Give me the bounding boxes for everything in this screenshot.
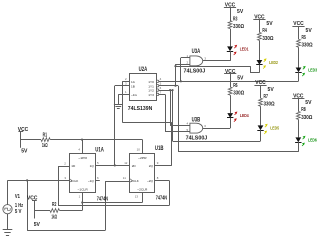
junction clear net — [81, 201, 83, 203]
wire: resistor R6 to LED4 anode — [230, 95, 232, 113]
wire: LED1 cathode down — [230, 51, 232, 61]
LED LED1 — [227, 45, 249, 55]
clock source V1 (1 Hz, 5 V) — [3, 194, 24, 215]
svg-text:~2CLR: ~2CLR — [137, 188, 148, 192]
decoder U2A 74LS139N — [130, 74, 157, 101]
output bubbles U2A — [156, 80, 158, 96]
power VCC symbol (R2 pull-up, 5V) — [27, 196, 40, 229]
svg-text:5V: 5V — [21, 148, 28, 154]
svg-text:330Ω: 330Ω — [233, 91, 244, 97]
svg-text:~1G: ~1G — [131, 93, 138, 97]
svg-text:U3A: U3A — [192, 48, 201, 55]
svg-text:74LS139N: 74LS139N — [128, 106, 153, 112]
svg-text:~1Q: ~1Q — [88, 179, 95, 183]
svg-text:1Y0: 1Y0 — [148, 80, 154, 84]
svg-text:11: 11 — [123, 176, 126, 180]
svg-text:~1PR: ~1PR — [78, 156, 87, 160]
junction 1Y0 — [180, 80, 182, 82]
wire: resistor R7 to LED5 anode — [260, 106, 262, 125]
wire: V1 top to U1A clock input — [8, 180, 70, 204]
svg-text:330Ω: 330Ω — [302, 43, 313, 49]
svg-text:R2: R2 — [52, 202, 57, 208]
LED LED3 — [295, 66, 317, 76]
svg-text:5V: 5V — [34, 222, 41, 228]
resistor R8 330Ohm — [296, 107, 312, 121]
svg-text:R3: R3 — [233, 16, 238, 22]
svg-text:LED3: LED3 — [308, 67, 317, 72]
svg-text:7474N: 7474N — [97, 196, 108, 202]
wire: LED5 cathode down — [260, 130, 262, 141]
wire: U1A notQ stub pin 6 — [96, 176, 100, 181]
svg-text:1Q: 1Q — [90, 164, 95, 168]
wire: resistor R8 to LED6 anode — [298, 119, 300, 137]
svg-text:330Ω: 330Ω — [264, 102, 275, 108]
svg-text:R5: R5 — [302, 35, 307, 41]
resistor R5 330Ohm — [297, 35, 313, 49]
LED LED6 — [295, 136, 317, 146]
wire: 1Y1 riser to U3A input 2 — [176, 64, 190, 86]
svg-text:1B: 1B — [131, 84, 135, 88]
pin numbers U3B — [187, 121, 207, 131]
power VCC symbol for R3 (5V) — [224, 3, 236, 9]
junction 1Q net — [114, 164, 116, 166]
svg-text:LED1: LED1 — [240, 46, 249, 51]
junction on preset net — [81, 139, 83, 141]
wire: U1A 1Q to U1B 2D — [96, 165, 130, 167]
junction 1Y1 — [174, 85, 176, 87]
wire: 1Y2 riser to U3B input 1 — [170, 90, 190, 125]
svg-text:1kΩ: 1kΩ — [42, 143, 48, 149]
pin numbers U2A — [125, 77, 162, 94]
svg-text:LED2: LED2 — [269, 60, 278, 65]
svg-text:1Y3: 1Y3 — [148, 93, 154, 97]
svg-text:330Ω: 330Ω — [301, 115, 312, 121]
svg-text:VCC: VCC — [18, 127, 28, 133]
svg-text:1 Hz: 1 Hz — [15, 203, 24, 209]
wire: resistor R3 to LED1 anode — [230, 29, 232, 47]
svg-text:R4: R4 — [262, 28, 267, 34]
svg-text:~2PR: ~2PR — [138, 156, 147, 160]
wire: U1A 1D feedback from U1B ~2Q — [58, 166, 170, 206]
wire: VCC to resistor R3 — [230, 7, 232, 20]
svg-text:5V: 5V — [305, 100, 312, 106]
resistor R7 330Ohm — [259, 94, 275, 108]
wire: decoder output 1Y1 row — [159, 85, 178, 87]
svg-text:1kΩ: 1kΩ — [51, 215, 57, 221]
power VCC symbol for R7 (5V) — [254, 80, 266, 86]
svg-text:5V: 5V — [306, 28, 313, 34]
svg-text:74LS00J: 74LS00J — [184, 68, 206, 74]
flip-flop U1B 7474N — [130, 154, 155, 193]
svg-text:74LS00J: 74LS00J — [186, 135, 208, 141]
wire: decoder output 1Y0 row to LED3 feed — [159, 81, 299, 83]
svg-text:R7: R7 — [264, 94, 269, 100]
LED LED4 — [227, 112, 249, 122]
svg-text:U1B: U1B — [155, 145, 164, 152]
wire: VCC to resistor R4 — [259, 19, 261, 32]
ground for U2A enable — [118, 101, 120, 104]
power VCC symbol for R8 (5V) — [292, 93, 304, 99]
power VCC symbol for R5 (5V) — [292, 21, 304, 27]
resistor R6 330Ohm — [228, 83, 244, 97]
wire: clock branch down and around to U1B clock pin 11 — [27, 180, 130, 230]
resistor R3 330Ohm — [228, 16, 244, 30]
wire: clear net R2 to U1A and U1B CLR pins — [60, 192, 143, 211]
svg-text:R1: R1 — [43, 132, 48, 138]
pin numbers U3A — [187, 54, 207, 64]
svg-text:2Q: 2Q — [149, 164, 154, 168]
svg-text:U1A: U1A — [95, 147, 104, 154]
resistor R1 1kOhm — [21, 132, 50, 149]
power VCC symbol for R6 (5V) — [224, 69, 236, 75]
wire: LED6 cathode down — [298, 142, 300, 152]
svg-text:5V: 5V — [237, 76, 244, 82]
wire: VCC to resistor R7 — [260, 85, 262, 98]
wire: branch to LED2 cathode — [176, 66, 260, 73]
LED LED2 — [256, 58, 278, 68]
resistor R4 330Ohm — [258, 28, 274, 42]
svg-text:R8: R8 — [301, 107, 306, 113]
svg-text:LED6: LED6 — [308, 137, 317, 142]
junction LED5 feed — [171, 89, 173, 91]
svg-text:13: 13 — [135, 194, 139, 198]
wire: U1B 2Q up and over to decoder input 1A — [122, 81, 171, 165]
AND gate U3A 74LS00J — [190, 56, 203, 66]
svg-text:U2A: U2A — [139, 66, 148, 73]
junction LED2 branch — [174, 65, 176, 67]
power VCC symbol for R4 (5V) — [253, 14, 265, 20]
wire: 1Q riser to decoder input 1B — [115, 86, 130, 166]
svg-text:10: 10 — [137, 147, 141, 151]
svg-text:12: 12 — [124, 161, 128, 165]
svg-text:5V: 5V — [266, 21, 273, 27]
wire: LED6 feed from 1Y1 node — [178, 86, 298, 152]
wire: LED5 feed from 1Y2 node — [173, 90, 261, 141]
svg-text:2CLK: 2CLK — [131, 179, 139, 183]
wire: preset net from R1 to U1A and U1B PR pins — [50, 140, 142, 154]
svg-text:1Y1: 1Y1 — [148, 84, 154, 88]
svg-text:~2Q: ~2Q — [147, 179, 154, 183]
LED LED5 — [257, 124, 279, 134]
resistor R2 1kOhm — [34, 202, 59, 221]
svg-text:330Ω: 330Ω — [233, 24, 244, 30]
svg-text:R6: R6 — [233, 83, 238, 89]
svg-text:1CLK: 1CLK — [71, 179, 79, 183]
svg-text:5 V: 5 V — [15, 209, 22, 215]
junction 1Y2 — [169, 89, 171, 91]
wire: U2A enable 1G to ground — [118, 94, 129, 102]
svg-text:V1: V1 — [15, 194, 20, 200]
wire: decoder output 1Y2 row — [159, 90, 173, 92]
svg-text:LED4: LED4 — [240, 113, 249, 118]
wire: 1Y0 riser to U3A input 1 — [181, 58, 190, 82]
wire: LED3 cathode down — [298, 72, 300, 81]
wire: resistor R4 to LED2 anode — [259, 40, 261, 60]
wire: VCC to resistor R6 — [230, 74, 232, 87]
ground for V1 — [3, 214, 13, 236]
power VCC symbol (R1 pull-up, 5V) — [18, 127, 28, 154]
svg-text:LED5: LED5 — [270, 125, 279, 130]
wire: U3A output to LED1 cathode — [203, 60, 230, 62]
svg-text:U3B: U3B — [192, 116, 201, 123]
svg-text:5V: 5V — [237, 9, 244, 15]
wire: VCC to resistor R8 — [298, 98, 300, 111]
wire: resistor R5 to LED3 anode — [298, 47, 300, 67]
svg-text:~1CLR: ~1CLR — [78, 188, 89, 192]
junction clock net — [26, 179, 28, 181]
svg-text:5V: 5V — [268, 87, 275, 93]
wire: U3B output to LED4 cathode — [203, 128, 230, 130]
wire: LED4 cathode down — [230, 118, 232, 128]
wire: decoder output 1Y3 row — [159, 94, 165, 96]
AND gate U3B 74LS00J — [190, 123, 203, 133]
svg-text:330Ω: 330Ω — [262, 36, 273, 42]
wire: 1Y3 riser to U3B input 2 — [165, 94, 190, 131]
wire: VCC to resistor R5 — [298, 26, 300, 39]
flip-flop U1A 7474N — [70, 154, 96, 193]
svg-text:7474N: 7474N — [156, 196, 167, 202]
wire: LED2 cathode down — [259, 65, 261, 73]
